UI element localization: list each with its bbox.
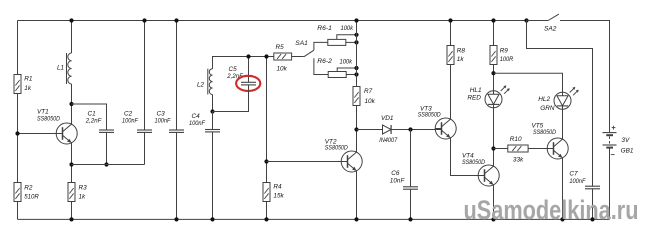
transistor VT3 [435,118,456,139]
svg-text:R6-2: R6-2 [317,58,332,65]
battery GB1 [603,132,617,134]
wire C1 top branch [72,104,107,130]
resistor R6-2 [328,72,346,78]
transistor VT1 [56,123,77,144]
svg-text:1k: 1k [457,56,465,63]
wire C4 bottom [212,132,214,220]
wire R4 to ground [266,202,268,220]
wire VD1 cathode to VT3 base [391,129,441,131]
wire R6-1 right [346,41,357,43]
svg-text:R6-1: R6-1 [317,25,332,32]
svg-text:100nF: 100nF [189,120,206,127]
svg-text:3V: 3V [621,137,630,144]
wire C5 bottom [213,85,249,112]
svg-text:R4: R4 [273,183,282,190]
capacitor C7 [585,185,600,187]
svg-text:10k: 10k [365,98,376,105]
wire VT2 emitter [356,171,358,220]
wire R8 branch [450,21,452,46]
wire VD1 anode [357,129,383,131]
resistor R6-1 [328,39,346,45]
switch SA1 blade [304,50,314,57]
svg-text:L2: L2 [197,81,205,88]
wire VT5 emitter [562,158,564,220]
wire VT4 emitter [493,185,495,220]
node C3 ground [174,217,178,221]
wire VT1 base [18,133,63,135]
node VT4 emitter ground [491,217,495,221]
svg-text:SS8050D: SS8050D [418,112,441,119]
wire R10 left [494,148,508,150]
wire SA2 right to battery [560,21,610,133]
svg-text:VD1: VD1 [381,115,394,122]
svg-text:HL2: HL2 [538,96,550,103]
svg-text:uSamodelkina.ru: uSamodelkina.ru [464,195,639,225]
svg-text:C7: C7 [569,170,578,177]
svg-text:C5: C5 [229,66,238,73]
svg-text:100k: 100k [340,58,353,65]
wire C7 bottom [592,189,594,220]
resistor R10 [508,145,528,152]
wire R3 to ground [71,202,73,220]
wire L2 to C4 [212,95,214,112]
svg-text:SS8050D: SS8050D [325,144,348,151]
svg-text:R1: R1 [24,75,33,82]
svg-text:SS8050D: SS8050D [37,115,60,122]
capacitor C2 [137,129,152,131]
node C2 top [142,18,146,22]
svg-text:L1: L1 [57,65,65,72]
capacitor C3 [169,129,184,131]
wire C1 bottom [106,132,108,164]
svg-text:R9: R9 [500,48,509,55]
svg-text:C4: C4 [192,113,201,120]
wire R9 to HL1 [493,65,495,91]
capacitor C5 [241,81,256,83]
inductor L1 [68,53,72,84]
node VD1 output [408,127,412,131]
wire C5 top [248,57,250,83]
wire R6-1 wiper tap [337,35,357,40]
wire R10 right to VT5 base [528,148,553,150]
node R6-1 tap [354,33,358,37]
led HL2 [554,92,571,109]
wire battery minus to ground [609,148,611,220]
capacitor C1 [99,129,114,131]
wire bottom ground rail [18,218,610,220]
svg-text:GB1: GB1 [621,147,634,154]
wire R7 to VT2 collector [356,106,358,153]
inductor L2 [209,69,212,95]
node base on left rail [15,131,19,135]
svg-text:R10: R10 [510,136,522,143]
wire R9 branch [493,21,495,46]
svg-text:C6: C6 [391,170,400,177]
resistor R3 [68,183,75,202]
node L1/C1 junction [69,102,73,106]
node R3 ground [69,217,73,221]
node L1 top [69,18,73,22]
svg-text:33k: 33k [513,157,524,164]
svg-text:100nF: 100nF [155,118,172,125]
wire V+ vertical to R7 [356,21,358,87]
highlight red ellipse around C5 [236,76,260,91]
resistor R5 [274,53,292,60]
svg-text:10nF: 10nF [390,178,406,185]
wire emitter horizontal [72,164,145,166]
node C1/emitter line [104,162,108,166]
capacitor C6 [403,186,418,188]
svg-text:SS8050D: SS8050D [533,129,556,136]
wire HL1 to VT4 collector [493,108,495,166]
svg-text:SA2: SA2 [544,26,557,33]
node R7/VD1/VT2 junction [354,127,358,131]
node R8 top [448,18,452,22]
svg-text:100nF: 100nF [122,118,139,125]
svg-text:SA1: SA1 [295,40,308,47]
node R4 top [264,54,268,58]
wire C2 bottom [144,132,146,164]
wire SA1 lower throw to R6-2 [314,58,328,74]
wire top supply rail [18,20,527,22]
svg-text:R2: R2 [24,184,33,191]
wire C6 bottom [410,189,412,219]
wire R6-2 wiper tap [337,68,356,72]
svg-text:RED: RED [467,95,481,102]
node R9 top [491,18,495,22]
node C4 ground [210,217,214,221]
resistor R8 [447,46,454,65]
svg-text:SS8050D: SS8050D [462,159,485,166]
svg-text:R3: R3 [79,184,88,191]
svg-text:R7: R7 [364,88,373,95]
led HL1 [485,91,502,108]
svg-text:HL1: HL1 [470,87,482,94]
wire left rail [17,21,19,220]
wire SA2 left [527,20,549,22]
resistor R1 [14,75,21,94]
svg-text:510R: 510R [24,193,39,200]
wire VT1 emitter down [71,143,73,183]
wire C7 jog [527,21,593,187]
svg-text:1k: 1k [24,85,32,92]
wire L1 to VT1 collector [71,84,73,124]
wire SA1 upper throw to R6-1 [314,42,328,50]
transistor VT5 [547,138,568,159]
wire C2 top [144,21,146,131]
wire HL2 feed [494,73,563,92]
node VT2 base tap [264,159,268,163]
node C3 top [174,18,178,22]
wire VT2 base [267,161,348,163]
node C7 ground [590,217,594,221]
resistor R4 branch wire [266,57,268,183]
wire C4 top [212,112,214,130]
svg-text:R5: R5 [276,44,285,51]
transistor VT2 [341,151,362,172]
node L2/C4/C5 junction [210,109,214,113]
switch SA2 blade [548,14,559,20]
svg-text:1k: 1k [79,193,87,200]
wire L1 branch top [71,21,73,54]
diode VD1 [383,125,392,134]
wire L2 top corner [213,57,274,69]
node R10 tap [491,146,495,150]
node R6-2 tap [354,66,358,70]
wire R8 to VT3 collector [450,65,452,120]
node R6-1 right [354,40,358,44]
transistor VT4 [478,165,499,186]
node VT2 emitter ground [354,217,358,221]
wire C3 bottom [176,132,178,219]
node V+ top [354,18,358,22]
node HL2 feed tap [491,71,495,75]
node SA2 junction [524,18,528,22]
resistor R7 [353,87,360,106]
svg-text:100k: 100k [341,25,354,32]
svg-text:GRN: GRN [540,105,555,112]
wire R6-2 right [346,74,356,76]
node R6-2 right [354,72,358,76]
node emitter junction [69,162,73,166]
svg-text:R8: R8 [457,48,466,55]
svg-text:10k: 10k [277,65,288,72]
svg-text:15k: 15k [273,193,284,200]
wire VT3 emitter to VT4 base [451,138,485,176]
svg-text:100R: 100R [500,56,514,63]
wire HL2 to VT5 collector [562,109,564,139]
node VT5 emitter ground [560,217,564,221]
node C5 top [246,54,250,58]
svg-text:IN4007: IN4007 [379,137,397,144]
resistor R9 [490,46,497,65]
svg-text:100nF: 100nF [569,178,586,185]
wire C6 top [410,130,412,187]
node R4 ground [264,217,268,221]
wire C3 top [176,21,178,131]
resistor R2 [14,183,21,202]
wire R5 to SA1 pole [292,56,304,58]
capacitor C4 [205,129,220,131]
resistor R4 [263,183,270,202]
node C6 ground [408,217,412,221]
svg-text:2,2nF: 2,2nF [85,118,102,125]
